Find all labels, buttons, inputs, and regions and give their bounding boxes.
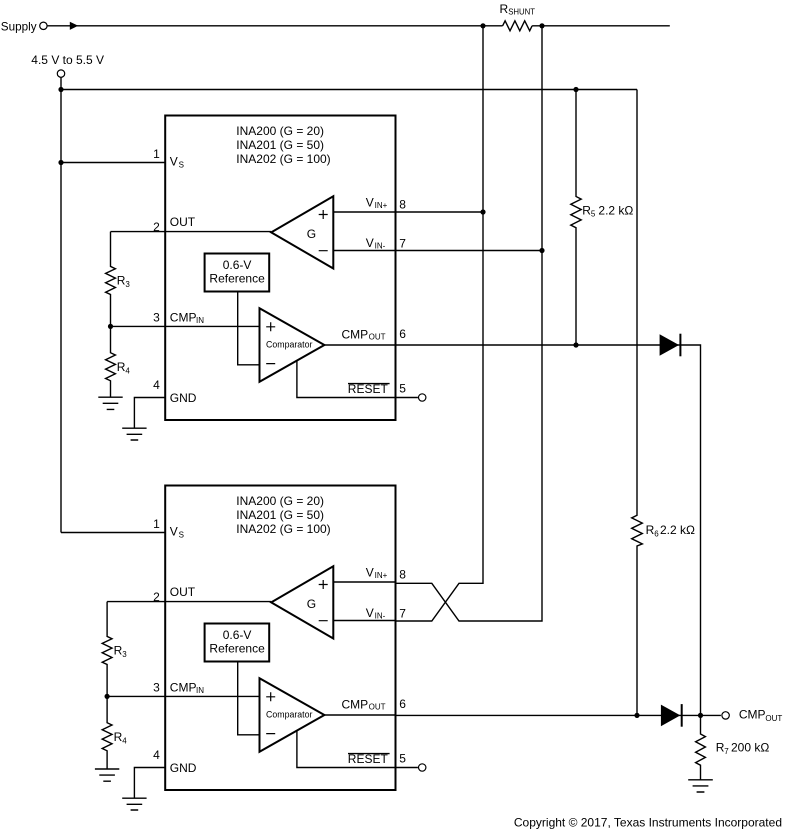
svg-text:5: 5: [591, 210, 596, 219]
svg-text:2.2 kΩ: 2.2 kΩ: [598, 203, 633, 217]
svg-text:2.2 kΩ: 2.2 kΩ: [660, 523, 695, 537]
svg-text:Copyright © 2017, Texas Instru: Copyright © 2017, Texas Instruments Inco…: [514, 816, 782, 830]
svg-text:4: 4: [125, 366, 130, 375]
svg-text:6: 6: [654, 529, 659, 538]
svg-text:3: 3: [125, 280, 130, 289]
svg-text:7: 7: [724, 747, 729, 756]
svg-text:SHUNT: SHUNT: [508, 8, 535, 17]
svg-text:CMP: CMP: [739, 708, 766, 722]
svg-text:R: R: [500, 2, 509, 16]
svg-text:3: 3: [122, 650, 127, 659]
svg-text:4: 4: [122, 736, 127, 745]
svg-text:OUT: OUT: [765, 714, 782, 723]
svg-text:4.5 V to 5.5 V: 4.5 V to 5.5 V: [31, 53, 104, 67]
svg-text:Supply: Supply: [1, 20, 37, 33]
svg-text:200 kΩ: 200 kΩ: [731, 741, 769, 755]
